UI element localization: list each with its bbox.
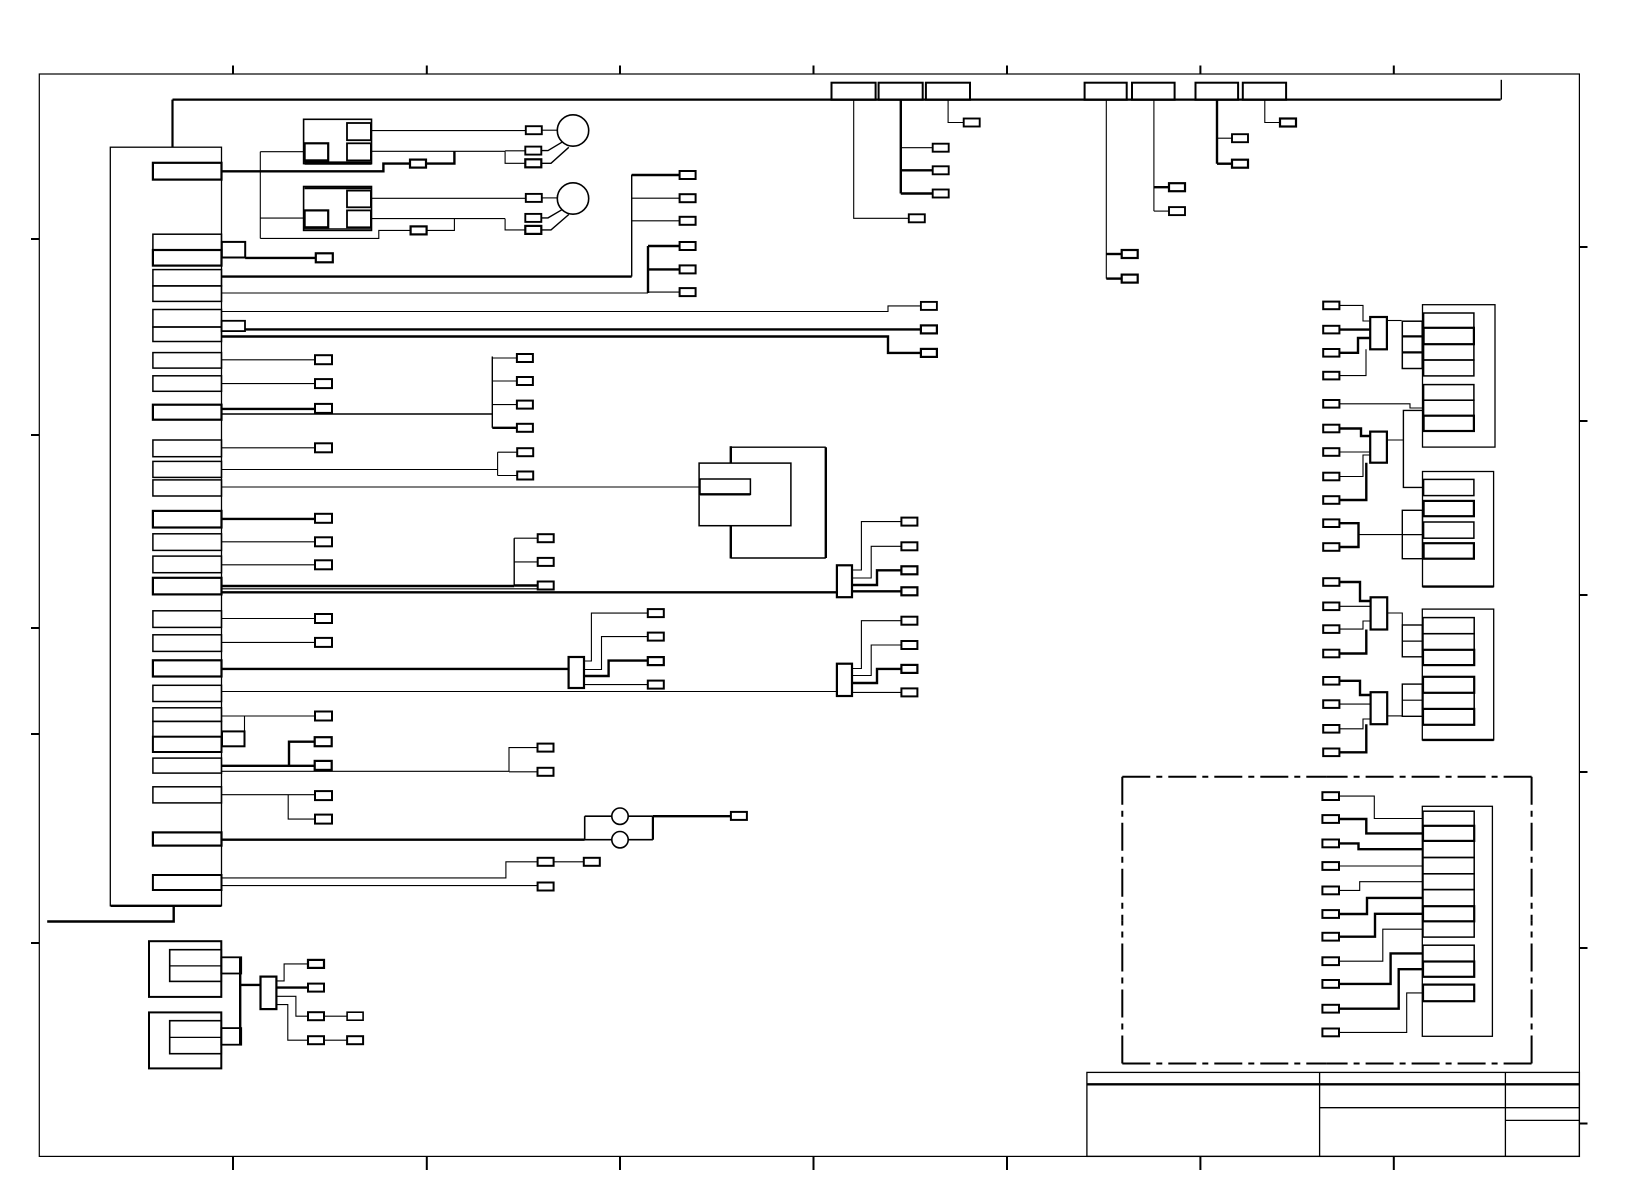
wire R2ef out [1359,534,1403,536]
wire pin J1-17 a [222,585,515,587]
border tick right 5 [1579,947,1587,949]
pin J1-5 [153,286,222,302]
terminal L2-3 [525,226,541,234]
wire fanB b [498,475,518,477]
wire R1c [1339,338,1370,353]
wire pin J1-21 [222,691,837,693]
relay K1 coil (bottom-left) [305,143,329,160]
wire from pin to T8 [222,359,316,361]
wire F2 branch 2 [901,169,933,171]
wire V1 branch c [632,220,680,222]
wire from pin to T18 [222,618,316,620]
wire R4d [1339,865,1423,867]
border tick right 2 [1579,420,1587,422]
junction block JB3 [1402,625,1422,657]
terminal FAb [517,377,533,385]
pin J1-9 [153,376,222,392]
terminal FAc [517,401,533,409]
terminal C3-2 [901,542,917,550]
wire F6 branch 1 [1217,137,1232,139]
wire V2 branch e [648,268,680,270]
wire speaker bus vertical [239,957,241,1044]
terminal T7b [921,349,937,357]
wire K2 NC branch [505,219,525,230]
terminal SP-1 [308,960,324,968]
wire pin J1-25 tee [289,742,315,766]
pin J1-24 [153,737,222,752]
wire fanA d [492,427,517,429]
wire L1 feed [542,129,558,131]
terminal F5a [1169,183,1185,191]
fan B vertical [497,452,499,475]
wire fanD b [509,771,538,773]
terminal R4c [1322,840,1339,848]
connector block B1 cavities bottom [1424,385,1474,431]
pin J1-1 [153,163,222,180]
wire R3d [1339,630,1366,654]
wire fanA b [492,380,517,382]
wire R3a [1339,582,1370,601]
pin J1-14 [153,511,222,528]
wire from fuse F5 drop [1153,100,1155,212]
wire C4 out1 [852,621,901,669]
terminal T18 [315,614,332,623]
terminal R3g [1323,725,1339,733]
pin J1-2 [153,234,222,250]
border tick right 3 [1579,594,1587,596]
wire C7 out [1387,439,1404,441]
terminal R3a [1323,578,1339,586]
pin J1-13 [153,480,222,496]
wire F5 branch 1 [1154,186,1169,188]
terminal T25a [315,737,332,746]
fuse F4 on bus [1085,83,1127,100]
wire R4c [1339,843,1423,849]
wire R2b [1339,451,1370,453]
terminal T28a [538,858,554,866]
wire C9 out [1387,715,1402,717]
wire C3 out1 [852,522,901,570]
wire J1 ground lead [47,906,174,922]
pin J1-12 [153,461,222,477]
splice block S1 at pins 2-3 [222,242,245,258]
wire fanC c [514,584,538,586]
fuse F7 on bus [1243,83,1286,100]
wire V2 branch d [648,245,680,247]
fuse F1 on bus [832,83,876,100]
wire R4e [1339,882,1423,891]
terminal C3-1 [901,518,917,526]
terminal A2 [411,226,427,234]
connector C9 body [1371,692,1388,724]
terminal L2-1 [526,194,542,202]
terminal T28b [584,858,600,866]
wire pin J1-13 to unit U1 [222,486,701,488]
splice block S3 at pins 23-24 [222,731,245,746]
wire R4g [1339,914,1423,937]
pin J1-7 [153,327,222,342]
wire F6 branch 2 [1217,162,1232,164]
wire T28a link [554,861,584,863]
wire R3g [1339,719,1370,729]
wire K1 NC branch [505,151,525,163]
terminal C2-1 [648,609,664,617]
terminal T10 [315,404,332,413]
relay K2 contact (top-right) [347,191,371,208]
wire C6 out [1387,320,1402,322]
terminal R4f [1322,910,1339,918]
terminal R4i [1322,980,1339,988]
connector J1 bottom edge [111,905,222,907]
wire A1 to junction [426,151,454,163]
wire L2 feed [542,197,558,199]
terminal G1b [680,194,696,202]
fuse F2 on bus [879,83,923,100]
terminal T19 [315,638,332,647]
terminal R1c [1323,349,1339,357]
wire C4 out2 [852,645,901,676]
terminal G2e [680,265,696,273]
wire F2 branch 1 [901,147,933,149]
wire indicator output [653,815,731,817]
wire R4j [1339,969,1423,1009]
border tick left 3 [31,627,39,629]
indicator left vertical [584,816,586,840]
terminal L34 [731,812,747,820]
border tick bottom 7 [1393,1156,1395,1170]
wire F4 branch 2 [1106,277,1121,279]
connector C4 body [837,664,852,696]
wire coil loop to A2 [260,230,410,238]
terminal FBa [517,448,533,456]
wire K2 coil feed [260,217,304,219]
border tick left 5 [31,942,39,944]
connector block B3 cavities bottom [1423,677,1474,725]
wire from pin to T22 [222,715,316,717]
pin J1-11 [153,440,222,457]
terminal R3e [1323,677,1339,685]
terminal L2-2 [525,214,541,222]
pin J1-20 [153,660,222,676]
terminal R3h [1323,749,1339,757]
terminal SP-3 [308,1012,324,1020]
wire from pin to T10 [222,408,316,410]
wire R3c [1339,621,1370,629]
pin J1-26 [153,787,222,803]
terminal T15 [315,537,332,546]
wire A2 to junction [426,219,455,231]
indicator bottom-right lead [628,839,653,841]
terminal R2a [1323,425,1339,433]
wire pin J1-26 [222,794,316,796]
wire C3 out3 [852,570,901,585]
node V2 vertical [647,246,649,293]
border tick top 4 [813,66,815,75]
wire from fuse F4 drop [1105,100,1107,279]
wire from splice S1 [245,257,316,259]
wire R1b [1339,328,1370,330]
wire pin J1-20 [222,668,569,670]
terminal T8 [315,355,332,364]
border tick right 4 [1579,771,1587,773]
wire fanB a [498,451,518,453]
terminal R3d [1323,650,1339,658]
pin J1-21 [153,685,222,701]
connector block B2 shell [1423,472,1494,587]
wire L1 slant a [542,142,562,150]
splice block S4 [221,957,241,973]
wire R1a [1339,305,1370,321]
pin J1-27 [153,832,222,845]
pin J1-15 [153,534,222,551]
border tick bottom 2 [426,1156,428,1170]
terminal T22 [315,712,332,721]
border tick top 5 [1006,66,1008,75]
terminal R4g [1322,933,1339,941]
terminal R4a [1322,792,1339,800]
wire K1 coil feed [260,151,304,153]
border tick top 2 [426,66,428,75]
connector C6 body [1370,317,1387,349]
terminal R2e [1323,519,1339,527]
terminal T7a [921,325,937,333]
wire from pin to T9 [222,383,316,385]
connector C5 body [261,977,277,1010]
terminal T26a [315,791,332,800]
wire from fuse F1 [854,100,909,219]
wire bus right riser [1500,80,1502,100]
terminal R4d [1322,862,1339,870]
relay K2 body [304,187,372,231]
relay K2 contact (bottom-right) [347,210,371,227]
node riser between B1 and B2 [1403,410,1423,487]
border tick top 3 [619,66,621,75]
lamp L2 [557,183,588,214]
wire R4f [1339,898,1423,914]
terminal C4-1 [901,617,917,625]
indicator lamp L3 [612,808,628,824]
wire bus left drop to connector J1 [171,100,173,148]
connector block B1 shell [1423,305,1496,447]
wire R4i [1339,953,1423,984]
wire R3f [1339,703,1370,705]
terminal T6 [921,302,937,310]
connector C7 body [1370,432,1387,463]
wire K2 NO to terminal [371,197,526,199]
wire L2 slant b [542,215,569,230]
wire C3 out2 [852,546,901,578]
terminal F5b [1169,207,1185,215]
terminal R3b [1323,603,1339,611]
border tick right 6 [1579,1123,1587,1125]
connector J1 body [110,147,221,906]
terminal R2b [1323,448,1339,456]
wire from pin to T14 [222,518,316,520]
wire top bus [173,98,1501,100]
wire from fuse F6 drop [1216,100,1218,164]
wire F4 branch 1 [1106,253,1121,255]
wire coil bus vertical [259,152,261,239]
wire R3b [1339,605,1370,607]
wire R3h [1339,724,1366,752]
wire K1 NC to t2 [505,150,525,152]
relay K1 contact (bottom-right) [347,143,371,160]
terminal F2a [933,144,949,152]
wire pin J1-28 a [222,862,538,878]
wire R2d [1339,463,1366,500]
border tick bottom 5 [1006,1156,1008,1170]
border tick top 6 [1199,66,1201,75]
terminal FBb [517,472,533,480]
terminal G2d [680,242,696,250]
wire C2 out1 [584,613,648,661]
terminal F4b [1122,275,1138,283]
wire fanD up [509,748,538,772]
terminal C2-2 [648,633,664,641]
title block [1087,1072,1580,1156]
indicator bottom-left lead [585,839,612,841]
control unit U1 keyway [700,479,750,494]
wire C5 out3 [276,996,308,1016]
terminal SP-4 [308,1036,324,1044]
terminal L1-3 [525,159,541,167]
wire fanA c [492,404,517,406]
connector block B4 cavities main [1423,811,1474,937]
wire from fuse F7 [1265,100,1280,123]
terminal C2-4 [648,681,664,689]
fuse F5 on bus [1132,83,1175,100]
junction block JB2 [1402,510,1422,558]
wire from pin J1-6 [222,306,921,312]
wire fanC a [514,537,538,539]
pin J1-22 [153,708,222,722]
wire pin J1-25 long [222,770,510,772]
connector block B1 cavities top [1424,313,1474,376]
terminal T25b [315,761,332,770]
terminal T9 [315,379,332,388]
terminal C3-4 [901,587,917,595]
wire pin J1-25 main [222,765,315,767]
wire R4h [1339,929,1423,961]
wire SP-3 link [324,1015,347,1017]
wire from pin to T11 [222,447,316,449]
terminal R3f [1323,700,1339,708]
fan A vertical [491,357,493,428]
terminal R1a [1323,302,1339,310]
terminal T14 [315,514,332,523]
wire C5 out2 [276,986,308,988]
wire from pin J1-4 [222,275,632,277]
terminal SP-3b [347,1012,363,1020]
wire K1 NO to terminal [371,130,526,132]
terminal FDb [538,768,554,776]
wire R3e [1339,681,1370,695]
speaker SP1 outer [149,941,221,997]
border tick bottom 6 [1199,1156,1201,1170]
connector block B3 shell [1422,609,1493,740]
border tick top 7 [1393,66,1395,75]
terminal G2f [680,288,696,296]
pin J1-6 [153,310,222,328]
wire pin J1-22 to S3 [244,716,246,731]
wire pin J1-17 b [222,591,837,593]
wire R4b [1339,819,1423,833]
control unit U1 inner [699,463,791,526]
pin J1-8 [153,353,222,369]
wire fanA a [492,357,517,359]
wire speaker bus to C5 [240,984,260,986]
border tick right 1 [1579,246,1587,248]
wire C3 out4 [852,590,901,592]
wire F2 branch 3 [901,192,933,194]
wire from fuse F2 drop [900,100,902,194]
pin J1-4 [153,270,222,286]
terminal C4-4 [901,688,917,696]
connector C8 body [1371,597,1388,629]
splice block S5 [221,1028,241,1045]
wire fanC b [514,561,538,563]
connector block B4 shell [1422,806,1492,1036]
connector block B4 cavities mid [1423,945,1474,977]
terminal F2b [933,166,949,174]
terminal R4k [1322,1029,1339,1037]
relay K2 coil (bottom-left) [305,210,329,227]
terminal R1b [1323,326,1339,334]
wire from splice S2 [245,328,921,330]
wire R4k [1339,993,1423,1033]
terminal T26b [315,815,332,824]
terminal R4b [1322,815,1339,823]
border tick left 2 [31,434,39,436]
wire K1 NC [371,150,505,152]
terminal R4e [1322,887,1339,895]
junction block JB1 [1402,321,1422,368]
border tick left 1 [31,238,39,240]
fuse F6 on bus [1196,83,1239,100]
terminal R2d [1323,496,1339,504]
wire C2 out4 [584,684,648,686]
wire pin J1-27 [222,839,585,841]
terminal F1a [909,214,925,222]
wire from pin to T19 [222,641,316,643]
terminal A1 [410,160,426,168]
indicator lamp L4 [612,832,628,848]
wire F5 branch 2 [1154,210,1169,212]
terminal T11 [315,443,332,452]
speaker SP2 inner connector [170,1021,222,1054]
terminal F4a [1122,250,1138,258]
terminal C4-2 [901,641,917,649]
terminal R4j [1322,1005,1339,1013]
border tick bottom 1 [232,1156,234,1170]
wire L2 slant a [542,210,562,218]
terminal F6b [1232,160,1248,168]
terminal F7a [1280,119,1296,127]
wire from pin J1-5 [222,292,649,294]
wire V1 branch b [632,197,680,199]
terminal FAa [517,354,533,362]
wire from fuse F3 [948,100,964,123]
terminal C4-3 [901,665,917,673]
terminal C2-3 [648,657,664,665]
splice block S2 at pins 6-7 [222,321,245,331]
terminal FCb [538,558,554,566]
pin J1-3 [153,250,222,266]
terminal C3-3 [901,566,917,574]
border tick top 1 [232,66,234,75]
speaker SP1 inner connector [170,950,222,982]
border tick left 4 [31,733,39,735]
